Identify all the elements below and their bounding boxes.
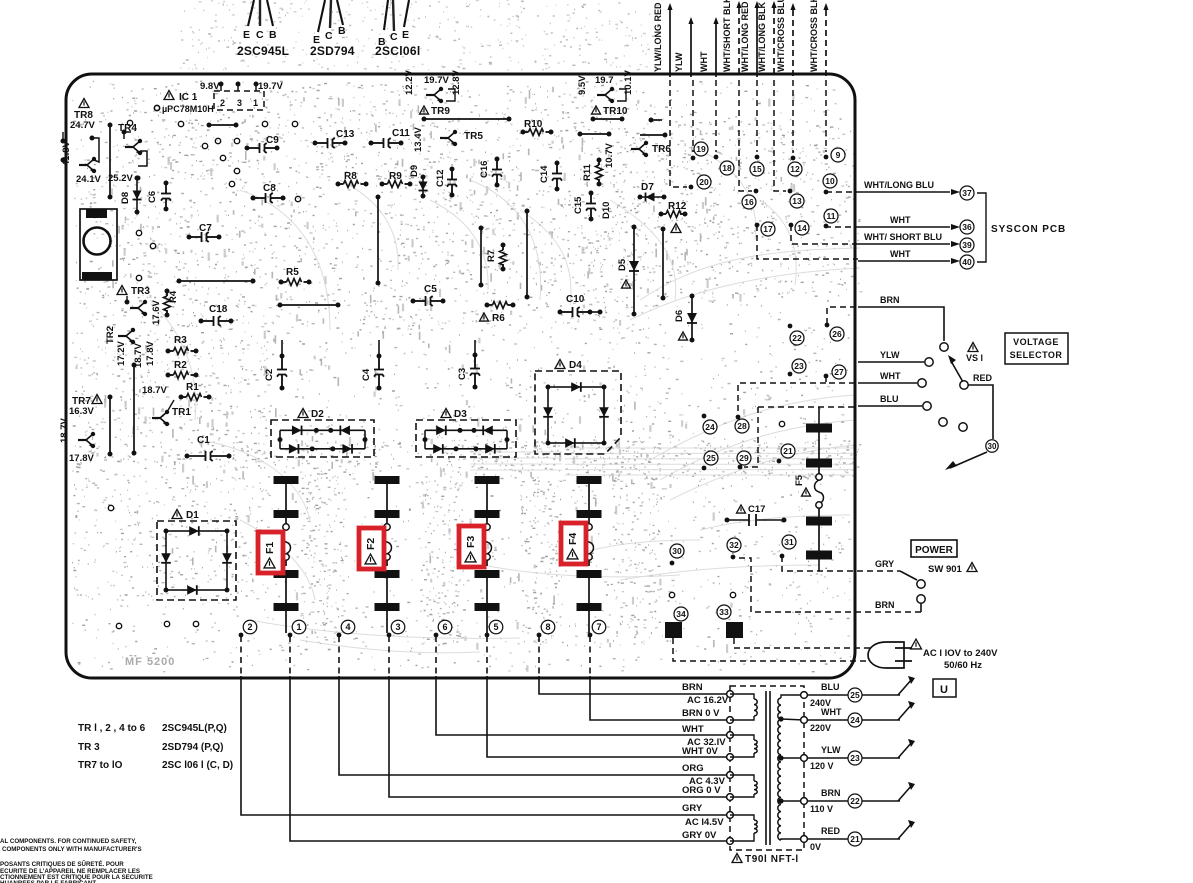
svg-text:GRY 0V: GRY 0V	[682, 830, 717, 841]
VS1 switch arm	[951, 361, 963, 382]
svg-text:24.7V: 24.7V	[70, 120, 95, 131]
svg-text:BRN: BRN	[875, 600, 895, 610]
transistor TR8	[79, 99, 89, 108]
node 12	[792, 80, 794, 153]
svg-text:12: 12	[790, 164, 800, 174]
pinout 2SC1061	[384, 0, 388, 30]
svg-text:B: B	[338, 25, 346, 37]
svg-text:D7: D7	[641, 182, 654, 193]
wire YLW to VS1	[858, 361, 924, 363]
secondary BLU 240V	[808, 694, 900, 696]
svg-text:U: U	[940, 684, 948, 696]
svg-text:GRY: GRY	[875, 559, 894, 569]
svg-text:GRY: GRY	[682, 803, 703, 814]
bridge rectifier D4	[535, 371, 621, 454]
svg-text:17.6V: 17.6V	[151, 300, 162, 325]
svg-text:F3: F3	[465, 536, 477, 548]
svg-text:TR6: TR6	[652, 144, 671, 155]
svg-text:33: 33	[719, 607, 729, 617]
dashed wire 27-28	[738, 383, 826, 416]
svg-text:220V: 220V	[810, 723, 831, 733]
svg-text:YLW: YLW	[880, 350, 900, 360]
fuse F5	[806, 424, 832, 433]
svg-text:R1: R1	[186, 382, 199, 393]
svg-text:18.7V: 18.7V	[59, 418, 70, 443]
svg-text:36: 36	[962, 222, 972, 232]
bridge rectifier D3	[416, 420, 516, 457]
svg-text:24: 24	[705, 422, 715, 432]
wire pin7-BRN0V	[589, 636, 591, 676]
transformer can (left)	[80, 209, 117, 280]
node 10	[823, 174, 837, 188]
svg-text:3: 3	[395, 622, 400, 632]
svg-text:C9: C9	[266, 135, 279, 146]
svg-text:C: C	[325, 30, 333, 42]
wire pin1-GRY0V	[289, 636, 291, 676]
wire TR8 vertical	[109, 125, 111, 197]
svg-text:30: 30	[988, 442, 997, 451]
svg-text:110 V: 110 V	[810, 804, 833, 814]
node 19	[692, 80, 694, 152]
svg-text:21: 21	[783, 446, 793, 456]
node 20	[670, 80, 687, 187]
svg-text:1: 1	[253, 98, 258, 108]
transistor TR3	[117, 286, 127, 295]
svg-text:C10: C10	[566, 294, 585, 305]
svg-text:9: 9	[836, 150, 841, 160]
svg-text:TR l , 2 , 4 to 6: TR l , 2 , 4 to 6	[78, 723, 146, 734]
svg-text:SELECTOR: SELECTOR	[1010, 350, 1063, 360]
svg-text:C1: C1	[197, 435, 210, 446]
syscon bracket	[977, 193, 986, 262]
wire IC1 pins	[220, 83, 222, 91]
svg-text:2SC945L(P,Q): 2SC945L(P,Q)	[162, 723, 227, 734]
svg-text:WHT: WHT	[699, 51, 709, 72]
svg-text:40: 40	[962, 257, 972, 267]
svg-text:4: 4	[345, 622, 350, 632]
svg-text:28: 28	[737, 421, 747, 431]
wire v mid2	[526, 211, 528, 297]
svg-text:IC 1: IC 1	[179, 92, 198, 103]
node 13	[774, 80, 786, 191]
svg-text:WHT/SHORT BLK: WHT/SHORT BLK	[722, 0, 732, 72]
svg-text:16.3V: 16.3V	[69, 406, 94, 417]
secondary RED 0V	[808, 838, 900, 840]
svg-text:34: 34	[676, 609, 686, 619]
svg-text:TR1: TR1	[172, 407, 191, 418]
node 26	[825, 323, 830, 328]
svg-text:D2: D2	[311, 409, 324, 420]
U box	[933, 679, 956, 697]
svg-text:C6: C6	[147, 191, 158, 203]
resistor R6	[487, 304, 493, 306]
svg-text:R2: R2	[174, 360, 187, 371]
svg-text:COMPONENTS ONLY WITH MANUFACTU: COMPONENTS ONLY WITH MANUFACTURER'S	[2, 846, 142, 853]
svg-text:2SD794 (P,Q): 2SD794 (P,Q)	[162, 742, 224, 753]
svg-text:D3: D3	[454, 409, 467, 420]
wire pin5-WHT0V	[486, 636, 488, 676]
svg-text:22: 22	[850, 796, 860, 806]
svg-text:9.5V: 9.5V	[577, 75, 588, 95]
transformer T901 box	[730, 686, 804, 850]
svg-text:37: 37	[962, 188, 972, 198]
wire WHT to VS1	[826, 376, 858, 383]
svg-text:VOLTAGE: VOLTAGE	[1013, 337, 1059, 347]
svg-text:23: 23	[850, 753, 860, 763]
svg-text:19.7V: 19.7V	[424, 75, 449, 86]
svg-text:11: 11	[827, 211, 836, 221]
wire h1	[179, 280, 253, 282]
wire h6	[580, 133, 609, 135]
svg-text:BLU: BLU	[821, 682, 840, 692]
node 27	[824, 374, 829, 379]
svg-text:BRN 0 V: BRN 0 V	[682, 708, 720, 719]
svg-text:19: 19	[696, 144, 706, 154]
transformer primary coils	[730, 694, 754, 699]
node 11	[824, 209, 838, 223]
svg-text:WHT 0V: WHT 0V	[682, 746, 719, 757]
POWER box	[911, 540, 957, 557]
svg-text:TR10: TR10	[603, 106, 628, 117]
svg-text:WHT: WHT	[821, 707, 842, 717]
svg-text:D5: D5	[617, 258, 628, 271]
svg-text:5: 5	[493, 622, 498, 632]
node 31	[780, 554, 785, 559]
secondary WHT 220V	[808, 719, 900, 721]
wire v TR2	[133, 365, 135, 453]
svg-text:POSANTS CRITIQUES DE SÛRETÉ. P: POSANTS CRITIQUES DE SÛRETÉ. POUR	[0, 860, 124, 868]
node 21 mid	[777, 459, 782, 464]
label T901	[732, 854, 742, 863]
wire WHT to syscon 36	[826, 226, 858, 227]
wire YLW/LONG RED (top)	[669, 10, 671, 77]
svg-text:C: C	[390, 31, 398, 43]
arrow from 30	[950, 452, 987, 468]
svg-text:TR5: TR5	[464, 131, 483, 142]
node 23	[788, 372, 793, 377]
svg-text:30: 30	[672, 546, 682, 556]
red highlight F2	[359, 528, 384, 569]
svg-text:24.1V: 24.1V	[76, 174, 101, 185]
svg-text:17.2V: 17.2V	[116, 341, 127, 366]
node 32	[731, 555, 736, 560]
transformer secondary taps	[778, 716, 783, 721]
svg-text:2SC l06 l (C, D): 2SC l06 l (C, D)	[162, 760, 233, 771]
transformer secondary pins	[801, 692, 808, 699]
svg-text:TR 3: TR 3	[78, 742, 100, 753]
svg-text:21: 21	[850, 834, 860, 844]
svg-text:MF 5200: MF 5200	[125, 656, 175, 668]
dashed wire BLU-29	[744, 407, 758, 467]
svg-text:AC l4.5V: AC l4.5V	[685, 817, 724, 828]
wire BLU to VS1	[758, 406, 858, 408]
svg-text:13: 13	[792, 196, 802, 206]
svg-text:TR9: TR9	[431, 106, 450, 117]
svg-text:SYSCON PCB: SYSCON PCB	[991, 224, 1066, 235]
svg-text:27: 27	[834, 367, 844, 377]
svg-text:3: 3	[237, 98, 242, 108]
svg-text:WHT/LONG RED: WHT/LONG RED	[740, 1, 750, 72]
bridge rectifier D1	[157, 521, 236, 600]
svg-text:R7: R7	[486, 250, 497, 262]
wire top-left	[209, 124, 236, 126]
svg-text:C5: C5	[424, 284, 437, 295]
VS1 label	[968, 343, 978, 352]
svg-text:22: 22	[792, 333, 802, 343]
svg-text:YLW: YLW	[674, 52, 684, 72]
wire YLW (top)	[690, 24, 692, 77]
svg-text:R10: R10	[524, 119, 543, 130]
via holes	[127, 120, 132, 125]
node 30b	[670, 561, 675, 566]
pin circles 1-8	[243, 620, 257, 634]
svg-text:2SC945L: 2SC945L	[237, 44, 289, 58]
wire h3	[424, 118, 509, 120]
svg-text:RED: RED	[821, 826, 841, 836]
svg-text:D9: D9	[409, 165, 420, 177]
svg-text:20: 20	[699, 177, 709, 187]
wire pin4-ORG	[338, 636, 340, 676]
node 24	[702, 414, 707, 419]
svg-text:2SD794: 2SD794	[310, 44, 355, 58]
svg-text:R3: R3	[174, 335, 187, 346]
svg-text:WHT/LONG BLK: WHT/LONG BLK	[757, 2, 767, 72]
wire plug bottom	[673, 638, 876, 661]
svg-text:F5: F5	[794, 474, 805, 486]
bridge rectifier D2	[271, 420, 374, 457]
node 9	[825, 80, 827, 152]
wire WHT/CROSS BLU (top)	[792, 10, 794, 77]
svg-text:YLW/LONG RED: YLW/LONG RED	[653, 2, 663, 72]
transformer secondary coil	[778, 698, 781, 840]
gray streak band 2	[470, 452, 562, 470]
node 25	[702, 466, 707, 471]
svg-text:D4: D4	[569, 360, 582, 371]
svg-text:7: 7	[596, 622, 601, 632]
svg-text:R6: R6	[492, 313, 505, 324]
svg-text:R5: R5	[286, 267, 299, 278]
svg-text:WHT: WHT	[890, 249, 911, 259]
svg-text:B: B	[269, 29, 277, 41]
svg-text:AC l lOV to 240V: AC l lOV to 240V	[923, 648, 998, 659]
svg-text:C11: C11	[392, 128, 410, 139]
svg-text:10.1V: 10.1V	[623, 70, 634, 95]
svg-text:8: 8	[545, 622, 550, 632]
node 33	[717, 605, 731, 619]
faint pcb traces	[150, 150, 860, 653]
wire h2	[280, 304, 338, 306]
svg-text:AL COMPONENTS. FOR CONTINUED S: AL COMPONENTS. FOR CONTINUED SAFETY,	[0, 838, 137, 845]
wire v D5b	[662, 229, 664, 298]
wire pin3-ORG0V	[388, 636, 390, 676]
svg-text:C14: C14	[539, 165, 550, 183]
svg-text:WHT: WHT	[682, 724, 704, 735]
svg-text:ORG 0 V: ORG 0 V	[682, 785, 721, 796]
wire WHT/LONG BLU to syscon	[826, 191, 858, 193]
red highlight F3	[459, 526, 484, 567]
svg-text:15: 15	[752, 164, 762, 174]
svg-text:WHT/ SHORT BLU: WHT/ SHORT BLU	[864, 232, 942, 242]
svg-text:C: C	[256, 29, 264, 41]
wire BRN from SW901	[737, 558, 921, 612]
wire pin6-WHT	[435, 636, 437, 676]
svg-text:BRN: BRN	[821, 788, 841, 798]
svg-text:25: 25	[706, 453, 716, 463]
svg-text:23: 23	[794, 361, 804, 371]
svg-text:17: 17	[763, 224, 773, 234]
transformer core	[765, 691, 767, 845]
svg-text:WHT/CROSS BLK: WHT/CROSS BLK	[809, 0, 819, 72]
wire v R7a	[480, 228, 482, 285]
svg-text:T90l NFT-l: T90l NFT-l	[745, 854, 799, 865]
svg-text:C4: C4	[361, 368, 372, 381]
node 14	[795, 221, 809, 235]
svg-text:VS l: VS l	[966, 353, 983, 363]
node 29	[738, 465, 743, 470]
svg-text:E: E	[402, 29, 409, 41]
svg-text:C16: C16	[479, 161, 490, 178]
red highlight F4	[561, 523, 586, 564]
svg-text:19.7: 19.7	[595, 75, 614, 86]
svg-text:E: E	[243, 29, 250, 41]
wire WHT to syscon 40	[757, 225, 858, 259]
noise texture	[72, 81, 850, 672]
svg-text:25: 25	[850, 690, 860, 700]
wire WHT/LONG RED (top)	[756, 8, 758, 77]
PCB board outline	[66, 74, 855, 678]
pinout 2SD794	[318, 0, 325, 32]
svg-text:WHT: WHT	[890, 215, 911, 225]
svg-text:39: 39	[962, 240, 972, 250]
svg-text:26: 26	[832, 329, 842, 339]
wire v TR7	[109, 397, 111, 454]
fuse F1	[274, 476, 299, 484]
secondary BRN 110 V	[808, 800, 900, 802]
svg-text:D1: D1	[186, 510, 199, 521]
svg-text:C8: C8	[263, 183, 276, 194]
wire h4	[593, 118, 622, 120]
svg-text:ORG: ORG	[682, 763, 704, 774]
wire h5	[651, 119, 662, 121]
svg-text:9.8V: 9.8V	[200, 81, 220, 92]
svg-text:16: 16	[744, 197, 754, 207]
wire BRN to VS1	[827, 307, 858, 324]
wire v-mid	[377, 197, 379, 283]
wire GRY to SW901	[782, 556, 900, 571]
svg-text:BRN: BRN	[682, 682, 703, 693]
svg-text:F4: F4	[567, 533, 579, 545]
svg-text:12.8V: 12.8V	[451, 70, 462, 95]
transformer primary pins	[727, 691, 734, 698]
svg-text:2SCl06l: 2SCl06l	[375, 44, 420, 58]
node 15	[756, 80, 758, 152]
svg-text:TR3: TR3	[131, 286, 150, 297]
wire WHT (top)	[715, 24, 717, 77]
fuse F3	[475, 476, 500, 484]
svg-text:18: 18	[722, 163, 732, 173]
noise blotches	[106, 87, 782, 648]
wire WHT/SHORT BLK (top)	[738, 8, 740, 77]
svg-text:AC 16.2V: AC 16.2V	[687, 695, 729, 706]
svg-text:YLW: YLW	[821, 745, 841, 755]
svg-text:14: 14	[797, 223, 807, 233]
svg-text:13.4V: 13.4V	[413, 127, 424, 152]
svg-text:C2: C2	[264, 369, 275, 381]
svg-text:50/60 Hz: 50/60 Hz	[944, 660, 982, 671]
node 17	[761, 222, 775, 236]
svg-text:BRN: BRN	[880, 295, 900, 305]
node 18	[715, 80, 717, 152]
svg-text:32: 32	[729, 540, 739, 550]
svg-text:R12: R12	[668, 201, 687, 212]
svg-text:µPC78M10H: µPC78M10H	[162, 104, 214, 114]
svg-text:R11: R11	[582, 163, 593, 181]
svg-text:17.8V: 17.8V	[145, 341, 156, 366]
via holes power	[669, 592, 674, 597]
svg-text:C12: C12	[435, 170, 446, 187]
svg-text:TR7 to lO: TR7 to lO	[78, 760, 123, 771]
svg-text:C13: C13	[336, 129, 355, 140]
svg-text:18.7V: 18.7V	[142, 385, 167, 396]
svg-text:F2: F2	[365, 538, 377, 550]
svg-text:C15: C15	[573, 196, 584, 214]
wire WHT/SHORT BLU to syscon 39	[791, 225, 858, 244]
node 34	[674, 607, 688, 621]
red highlight F1	[258, 532, 283, 573]
svg-text:SW 901: SW 901	[928, 564, 963, 575]
wire WHT/CROSS BLK (top)	[825, 10, 827, 77]
svg-text:WHT: WHT	[880, 371, 901, 381]
svg-text:C17: C17	[748, 504, 765, 515]
node 28	[736, 415, 741, 420]
svg-text:RED: RED	[973, 373, 993, 383]
svg-text:F1: F1	[264, 542, 276, 554]
wire plug top	[734, 638, 876, 648]
svg-text:C3: C3	[457, 368, 468, 380]
svg-text:D10: D10	[601, 202, 612, 219]
svg-text:D8: D8	[120, 192, 131, 204]
VOLTAGE SELECTOR box	[1005, 333, 1068, 364]
svg-text:24: 24	[850, 715, 860, 725]
svg-text:120 V: 120 V	[810, 761, 834, 771]
AC plug	[868, 642, 904, 668]
svg-text:1: 1	[296, 622, 301, 632]
svg-text:TR2: TR2	[105, 326, 116, 344]
svg-text:BLU: BLU	[880, 394, 899, 404]
node 22	[788, 324, 793, 329]
svg-text:POWER: POWER	[915, 545, 954, 556]
wire pin8-BRN	[538, 636, 540, 676]
svg-text:WHT/CROSS BLU: WHT/CROSS BLU	[776, 0, 786, 72]
svg-text:10: 10	[825, 176, 835, 186]
svg-text:D6: D6	[674, 310, 685, 322]
capacitor C17	[737, 505, 746, 513]
fuse F4	[577, 476, 602, 484]
secondary YLW 120 V	[808, 757, 900, 759]
svg-text:0V: 0V	[810, 842, 821, 852]
svg-text:WHT/LONG BLU: WHT/LONG BLU	[864, 180, 934, 190]
pinout 2SC945L	[248, 0, 254, 26]
svg-text:19.7V: 19.7V	[258, 81, 283, 92]
svg-text:2: 2	[220, 98, 225, 108]
svg-text:12.2V: 12.2V	[404, 70, 415, 95]
svg-text:C18: C18	[209, 304, 228, 315]
IC U1 uPC78M10H	[164, 91, 174, 100]
svg-text:25.2V: 25.2V	[108, 173, 133, 184]
node 16	[739, 80, 752, 191]
svg-text:31: 31	[784, 537, 794, 547]
svg-text:6: 6	[442, 622, 447, 632]
